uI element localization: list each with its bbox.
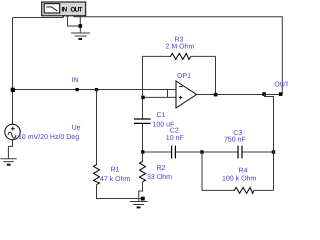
wire jog between op-amp inputs: [167, 90, 169, 98]
svg-text:OUT: OUT: [274, 81, 288, 88]
ground under source: [1, 159, 17, 165]
svg-text:100 k Ohm: 100 k Ohm: [222, 175, 256, 183]
wire plotter OUT- down to ground: [79, 16, 81, 33]
wire C2 to node: [175, 151, 202, 153]
node dot output branch: [262, 92, 266, 96]
node dot IN-/OUT- junction: [79, 24, 83, 28]
wire R3 left leg down through rail to C1: [142, 56, 144, 119]
svg-text:R4: R4: [239, 167, 248, 174]
svg-text:10 mV/20 Hz/0 Deg: 10 mV/20 Hz/0 Deg: [18, 133, 79, 141]
wire C3 to right node: [242, 151, 274, 153]
svg-text:IN: IN: [62, 7, 68, 14]
resistor R4 100k horizontal: [202, 152, 274, 193]
svg-text:R1: R1: [111, 167, 120, 174]
capacitor C3 750nF: [238, 146, 242, 159]
svg-text:2 M Ohm: 2 M Ohm: [166, 43, 195, 51]
AC source Ue: [5, 124, 20, 139]
node dot feedback junction: [141, 96, 144, 99]
resistor R3 2M horizontal feedback: [143, 53, 216, 94]
node dot C1/R2/C2: [141, 150, 144, 153]
wire output branch jog down to C3/R4: [265, 94, 274, 190]
ground under R2: [130, 202, 148, 208]
svg-text:47 k Ohm: 47 k Ohm: [100, 175, 131, 183]
svg-text:10 nF: 10 nF: [166, 135, 184, 142]
wire feedback node to op-amp plus: [143, 96, 176, 98]
capacitor C2 10nF: [172, 146, 176, 159]
wire left vertical to source: [12, 18, 14, 125]
wire node to C3: [202, 151, 238, 153]
svg-text:OP1: OP1: [177, 73, 191, 80]
node dot R1 bottom: [141, 197, 145, 201]
node dot C3 right: [272, 150, 275, 153]
wire C2 node to plates: [144, 151, 172, 153]
node dot C2/C3/R4: [200, 150, 203, 153]
bode plotter XBP1 body: [42, 2, 86, 16]
node IN connector dot: [76, 88, 79, 91]
wire plotter OUT+ to right rail: [75, 16, 282, 94]
bode plotter terminals: [62, 16, 81, 17]
svg-text:C1: C1: [157, 112, 166, 119]
wire op-amp output: [197, 94, 282, 96]
bode plotter display screen: [44, 4, 60, 13]
resistor R2 33 Ohm vertical: [139, 152, 146, 202]
svg-text:C2: C2: [170, 127, 179, 134]
wire source bottom to ground: [8, 140, 12, 159]
svg-text:R2: R2: [157, 165, 166, 172]
svg-text:R3: R3: [175, 37, 184, 44]
resistor R1 47k vertical: [94, 90, 142, 199]
wire input rail IN to op-amp minus: [13, 89, 177, 91]
node dot plotter OUT junction: [279, 92, 283, 96]
svg-text:750 nF: 750 nF: [224, 137, 246, 144]
node dot R1 branch: [95, 88, 98, 91]
node dot R3 output junction: [214, 93, 218, 97]
node dot left T-junction: [11, 88, 15, 92]
svg-text:Ue: Ue: [72, 125, 81, 132]
svg-text:OUT: OUT: [70, 7, 82, 14]
capacitor C1 100uF: [134, 119, 151, 152]
wire plotter IN+ to top-left rail: [13, 16, 64, 18]
ground under plotter: [71, 33, 90, 39]
bode plotter IN OUT text: [62, 7, 83, 14]
op-amp OP1: [176, 81, 197, 108]
svg-text:33 Ohm: 33 Ohm: [147, 173, 172, 181]
wire plotter IN- to ground dot: [68, 16, 81, 26]
svg-text:IN: IN: [72, 77, 79, 84]
